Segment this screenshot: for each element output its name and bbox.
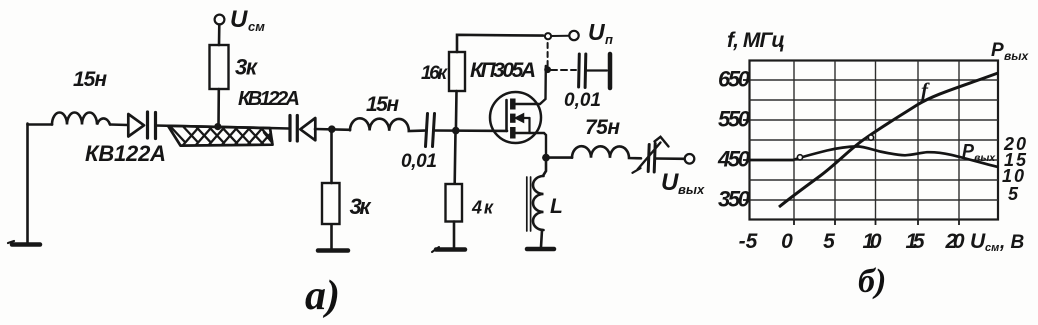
- data point circle (f): [868, 135, 873, 140]
- wire L to ground: [541, 230, 542, 247]
- wire VD2 to node: [315, 128, 350, 131]
- node C (supply node): [544, 66, 551, 73]
- svg-text:0,01: 0,01: [564, 90, 601, 111]
- resistor R3 16к: [449, 52, 465, 91]
- wire between terminals: [552, 35, 570, 37]
- svg-text:10: 10: [1002, 166, 1024, 186]
- svg-text:20: 20: [945, 230, 965, 253]
- ground (L): [527, 247, 554, 252]
- axis ticks bottom: [794, 220, 959, 226]
- svg-text:U: U: [661, 169, 679, 196]
- wire node down to coil L: [544, 158, 547, 175]
- svg-text:350: 350: [718, 187, 751, 212]
- right axis labels: [1002, 134, 1027, 204]
- svg-text:вых: вых: [678, 182, 705, 197]
- label Uвых: [661, 169, 705, 197]
- svg-text:16к: 16к: [421, 63, 448, 84]
- svg-text:вых: вых: [974, 152, 996, 164]
- svg-text:0,01: 0,01: [401, 151, 437, 172]
- svg-text:3к: 3к: [350, 194, 373, 219]
- ground (R2): [318, 248, 348, 253]
- svg-text:3к: 3к: [235, 55, 259, 80]
- inductor L (with core): [527, 176, 544, 231]
- svg-text:75н: 75н: [585, 116, 620, 139]
- svg-text:15н: 15н: [73, 68, 107, 91]
- svg-text:б): б): [858, 263, 886, 300]
- node (stripline / R1 junction): [214, 123, 221, 130]
- wire node to R4: [453, 131, 456, 183]
- svg-text:вых: вых: [1004, 49, 1029, 63]
- grid vertical lines: [794, 61, 959, 220]
- node D (source node): [542, 154, 550, 162]
- curve f: [779, 73, 998, 207]
- node A (VD2 / R2 junction): [328, 125, 336, 133]
- svg-text:U: U: [588, 19, 606, 45]
- wire: [110, 123, 128, 126]
- svg-text:а): а): [305, 273, 340, 319]
- node B (gate node): [452, 127, 460, 135]
- svg-text:п: п: [605, 32, 613, 47]
- label Pвых (axis): [991, 40, 1029, 63]
- terminal Uсм: [215, 15, 225, 25]
- resistor R2 3к: [322, 183, 340, 224]
- svg-text:10: 10: [863, 230, 882, 253]
- wire node to R3: [455, 91, 458, 131]
- grid horizontal lines: [750, 80, 999, 200]
- stripline (crosshatched element): [168, 126, 276, 146]
- resistor R1 3к: [210, 45, 229, 89]
- x tick labels: [739, 230, 965, 253]
- svg-text:см: см: [985, 242, 999, 254]
- svg-text:550: 550: [718, 107, 751, 132]
- ground (R4): [432, 247, 465, 252]
- terminal Uвых: [685, 154, 695, 164]
- wire R3 to supply rail: [457, 35, 543, 52]
- svg-text:U: U: [230, 6, 248, 33]
- inductor L2 15н: [350, 118, 425, 131]
- transistor VT1 КП305А (MOSFET): [490, 66, 546, 154]
- svg-text:450: 450: [717, 147, 751, 172]
- wire C3 to output terminal: [655, 157, 684, 160]
- label Uп: [588, 19, 613, 47]
- resistor R4 4к: [446, 184, 463, 222]
- y tick labels: [717, 67, 751, 212]
- wire C2 to ground: [586, 69, 608, 71]
- varactor VD1 КВ122А: [128, 112, 155, 139]
- wire node to R1: [217, 89, 220, 127]
- wire R4 to ground: [453, 222, 456, 249]
- svg-text:5: 5: [823, 230, 835, 253]
- svg-text:КВ122А: КВ122А: [238, 88, 300, 110]
- trimmer capacitor C3: [633, 137, 669, 173]
- label Uсм: [230, 6, 265, 34]
- wire R2 to ground: [330, 225, 333, 249]
- svg-text:0: 0: [781, 230, 793, 253]
- data point circle (Pвых): [797, 155, 802, 160]
- svg-text:L: L: [550, 195, 563, 218]
- svg-text:КП305А: КП305А: [470, 59, 536, 82]
- label Pвых (curve): [962, 141, 996, 164]
- svg-text:P: P: [991, 40, 1004, 61]
- supply rail dashed up to terminal: [547, 40, 549, 66]
- svg-text:КВ122А: КВ122А: [85, 141, 166, 166]
- ground (C2, bar style): [608, 54, 613, 88]
- svg-text:4к: 4к: [471, 198, 494, 218]
- ground (left input): [8, 241, 40, 245]
- capacitor C1 0,01: [426, 114, 435, 147]
- wire R1 to terminal: [218, 25, 221, 46]
- inductor L1 15н: [52, 113, 110, 125]
- wire node to C2 (dashed): [551, 69, 576, 71]
- svg-text:, В: , В: [999, 232, 1025, 253]
- svg-text:15: 15: [906, 230, 925, 253]
- svg-text:f, МГц: f, МГц: [727, 29, 785, 52]
- svg-text:5: 5: [1008, 184, 1019, 204]
- wire node to L3: [546, 156, 572, 159]
- wire to inductor L1: [28, 123, 53, 126]
- terminal (rail end): [545, 33, 551, 39]
- inductor L3 75н: [572, 146, 641, 158]
- svg-text:-5: -5: [739, 230, 758, 253]
- terminal Uп: [569, 31, 578, 40]
- wire node to R2: [330, 130, 333, 184]
- svg-text:15н: 15н: [366, 93, 399, 116]
- svg-text:см: см: [248, 19, 265, 34]
- graph frame: [750, 61, 999, 220]
- wire left vertical: [26, 124, 29, 244]
- varactor VD2 КВ122А: [290, 116, 315, 142]
- svg-text:U: U: [970, 230, 986, 253]
- svg-text:650: 650: [718, 67, 751, 92]
- wire through stripline: [156, 126, 290, 129]
- capacitor C2 0,01: [579, 54, 586, 88]
- curve Pвых: [750, 146, 998, 167]
- wire C1 to gate node: [435, 129, 508, 132]
- x axis name Uсм, В: [970, 230, 1025, 254]
- axis ticks left: [743, 80, 750, 200]
